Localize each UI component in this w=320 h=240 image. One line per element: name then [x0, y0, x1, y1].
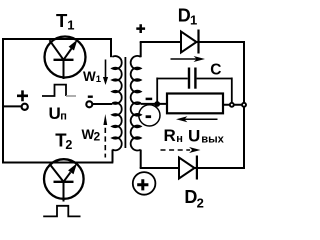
- resistor Rn (load): [167, 94, 223, 114]
- wire: secondary top to D1 and right rail: [140, 41, 245, 43]
- transformer core: [124, 57, 126, 148]
- winding W1 (primary upper half): [112, 56, 121, 104]
- svg-text:2: 2: [94, 129, 101, 143]
- circled minus polarity on secondary: [139, 105, 160, 126]
- svg-text:W: W: [83, 69, 96, 84]
- wire: left rail: [2, 38, 4, 164]
- winding W2 (primary lower half): [112, 103, 121, 151]
- wire: secondary centre tap to load: [141, 103, 167, 105]
- transistor T1: [45, 37, 86, 80]
- svg-text:1: 1: [190, 13, 197, 28]
- wire: capacitor left leg down to tap node: [156, 78, 158, 105]
- dashed current arrow above D2: [161, 149, 191, 151]
- svg-text:1: 1: [67, 17, 74, 32]
- minus sign of input source: [88, 95, 93, 97]
- diode D1: [181, 30, 199, 54]
- svg-text:U: U: [188, 127, 200, 146]
- current arrow above capacitor: [171, 58, 198, 60]
- svg-text:T: T: [56, 10, 68, 31]
- current arrow below load (left): [184, 118, 218, 120]
- winding secondary lower half: [131, 102, 141, 150]
- wire: secondary bottom to D2 and right rail corner: [140, 167, 244, 169]
- svg-text:C: C: [210, 62, 221, 79]
- wire: primary bottom lead: [112, 150, 114, 163]
- svg-text:1: 1: [96, 74, 102, 85]
- wire: top wire from left rail to primary top lead: [2, 38, 112, 40]
- arrow W2 (dashed, up): [104, 128, 106, 158]
- plus sign of input source: [17, 90, 28, 101]
- terminal: input plus: [22, 104, 28, 110]
- wire: right rail: [243, 41, 245, 169]
- winding secondary upper half: [131, 56, 141, 104]
- capacitor C: [157, 68, 232, 89]
- transistor T2: [44, 159, 84, 201]
- wire: minus terminal to primary centre tap: [92, 103, 112, 105]
- wire: capacitor right leg down to output node: [231, 78, 233, 105]
- node: capacitor output junction: [230, 103, 234, 107]
- node: tap junction dot: [154, 101, 160, 107]
- svg-text:н: н: [176, 133, 183, 145]
- svg-text:D: D: [178, 6, 191, 26]
- svg-text:п: п: [60, 110, 67, 122]
- base pulse of T1: [42, 85, 66, 96]
- wire: bottom wire from left rail to primary bottom lead: [2, 162, 113, 164]
- terminal: input minus: [86, 101, 92, 107]
- wire: secondary top lead: [140, 42, 142, 57]
- wire: input branch to plus terminal: [2, 105, 21, 107]
- svg-text:вых: вых: [201, 134, 224, 146]
- circled plus polarity on secondary: [133, 172, 156, 195]
- minus polarity label near tap: [146, 98, 153, 101]
- svg-text:U: U: [49, 104, 61, 123]
- wire: secondary bottom lead: [140, 150, 142, 168]
- wire: load right side to rail: [223, 104, 244, 106]
- svg-text:2: 2: [65, 138, 72, 152]
- node: rail junction: [242, 103, 246, 107]
- svg-text:D: D: [184, 187, 197, 207]
- base pulse of T2: [43, 206, 80, 217]
- arrow W1 (solid, down): [105, 60, 107, 79]
- svg-text:2: 2: [197, 195, 204, 210]
- svg-text:R: R: [164, 126, 176, 145]
- diode D2: [179, 156, 197, 180]
- plus polarity at secondary top: [136, 24, 145, 33]
- wire: primary top lead: [110, 38, 112, 57]
